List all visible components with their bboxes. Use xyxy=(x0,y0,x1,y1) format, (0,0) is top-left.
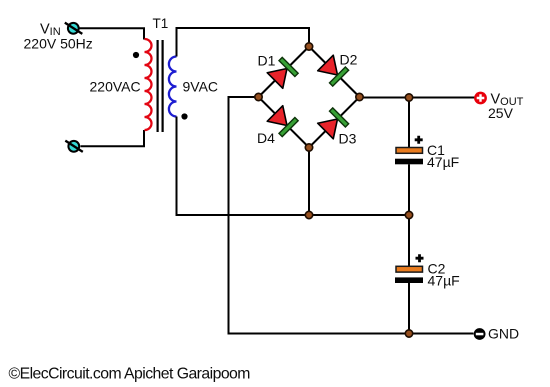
primary phasing dot xyxy=(133,52,139,58)
capacitor C2 negative plate xyxy=(395,277,423,283)
wire C2 branch from mid rail down to ground rail xyxy=(408,215,410,334)
capacitor C1 positive plate xyxy=(396,148,423,154)
svg-text:©ElecCircuit.com Apichet Garai: ©ElecCircuit.com Apichet Garaipoom xyxy=(9,366,251,383)
wire from VIN terminal to primary top xyxy=(80,28,145,39)
node mid rail at C1/C2 junction xyxy=(405,211,412,218)
svg-text:25V: 25V xyxy=(488,105,514,121)
wire from secondary top to bridge top node xyxy=(177,28,310,57)
C1 plus sign xyxy=(415,136,423,144)
wire C1 branch from VOUT node down to mid rail xyxy=(408,98,410,216)
svg-text:47µF: 47µF xyxy=(427,154,459,170)
svg-text:D4: D4 xyxy=(257,130,275,146)
svg-text:220V 50Hz: 220V 50Hz xyxy=(24,36,93,52)
node bridge bottom xyxy=(305,144,312,151)
node C1 top on VOUT wire xyxy=(405,94,412,101)
wire from secondary bottom to mid rail xyxy=(177,117,410,216)
transformer T1 primary winding 220VAC (red coil) xyxy=(145,39,152,130)
svg-text:T1: T1 xyxy=(153,16,169,31)
wire bridge right node to VOUT terminal xyxy=(360,97,475,99)
diode D3 xyxy=(318,108,349,139)
secondary phasing dot xyxy=(181,113,187,119)
node bridge right xyxy=(356,93,363,100)
wire from primary bottom to lower input terminal xyxy=(81,130,145,146)
svg-text:9VAC: 9VAC xyxy=(183,79,219,95)
svg-text:D3: D3 xyxy=(339,131,357,147)
transformer T1 secondary winding 9VAC (blue coil) xyxy=(169,57,177,117)
wire bridge diamond bottom-left edge xyxy=(259,97,310,148)
diode D2 xyxy=(318,55,349,86)
wire bridge diamond bottom-right edge xyxy=(309,97,360,148)
terminal input low side xyxy=(65,141,83,152)
node bridge top xyxy=(305,43,312,50)
diode D4 xyxy=(267,106,298,137)
wire bridge bottom node down to mid rail xyxy=(308,148,310,216)
svg-text:220VAC: 220VAC xyxy=(90,79,141,95)
svg-text:47µF: 47µF xyxy=(428,273,460,289)
node bridge left xyxy=(255,93,262,100)
svg-text:D2: D2 xyxy=(340,52,358,68)
terminal VOUT (red plus) xyxy=(474,92,487,105)
terminal VIN (top input) xyxy=(65,23,83,34)
node mid rail at bridge bottom branch xyxy=(305,211,312,218)
wire bridge left node to bottom ground rail xyxy=(229,97,474,334)
node ground rail at C2 bottom xyxy=(405,330,412,337)
wire bridge diamond top-left edge xyxy=(259,47,310,98)
transformer T1 core xyxy=(158,40,163,132)
capacitor C1 negative plate xyxy=(395,159,423,165)
svg-text:GND: GND xyxy=(488,326,519,342)
terminal GND (black minus) xyxy=(474,328,486,340)
diode D1 xyxy=(267,57,298,88)
wire bridge diamond top-right edge xyxy=(309,47,360,98)
C2 plus sign xyxy=(416,254,424,262)
capacitor C2 positive plate xyxy=(396,266,423,272)
svg-text:D1: D1 xyxy=(258,53,276,69)
